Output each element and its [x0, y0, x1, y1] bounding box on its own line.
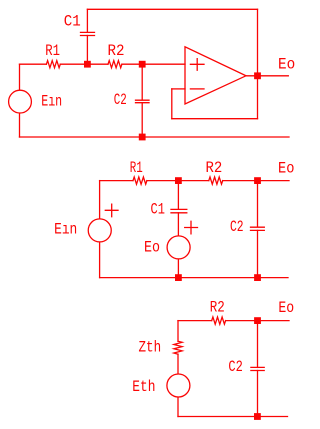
svg-text:R1: R1: [45, 42, 60, 60]
svg-text:C1: C1: [64, 12, 81, 30]
svg-text:C2: C2: [114, 91, 127, 109]
svg-text:R2: R2: [108, 42, 125, 60]
junction C2 branch to rail: [254, 274, 261, 281]
plus sign Eo polarity: [185, 221, 198, 234]
resistor R2: [212, 317, 226, 324]
resistor Zth vertical: [174, 341, 182, 354]
resistor R1: [133, 177, 147, 184]
wire left vertical to Zth: [177, 321, 179, 342]
wire Zth to Eth source: [177, 354, 179, 373]
svg-text:Eo: Eo: [278, 56, 295, 74]
wire C1 bottom lead: [86, 36, 88, 65]
wire op-amp output: [246, 75, 288, 77]
wire output vertical to top rail and feedback: [257, 9, 259, 118]
wire C1 to Eo source: [177, 213, 179, 236]
wire node A to R2: [87, 63, 108, 65]
junction C2 to ground rail: [139, 134, 146, 141]
wire Ein source top lead: [19, 64, 21, 89]
svg-text:Eo: Eo: [278, 159, 294, 177]
resistor R2: [108, 61, 122, 68]
svg-text:Eo: Eo: [278, 299, 294, 317]
wire C2 bottom lead: [257, 371, 259, 417]
source Eth: [167, 374, 190, 397]
wire Ein left vertical top: [99, 181, 101, 219]
svg-text:Eo: Eo: [144, 239, 160, 257]
capacitor C2: [136, 100, 150, 103]
wire node A to R2: [178, 180, 208, 182]
wire C2 bottom lead: [141, 103, 143, 137]
wire node B to op-amp plus input: [142, 63, 185, 65]
output node junction: [254, 317, 261, 324]
capacitor C1: [171, 209, 187, 212]
svg-text:R2: R2: [210, 298, 225, 316]
node A junction: [84, 61, 91, 68]
svg-text:Eın: Eın: [54, 220, 77, 238]
wire node to Eo: [258, 320, 290, 322]
output node junction: [254, 72, 261, 79]
plus sign Ein polarity: [105, 204, 118, 217]
op-amp plus sign: [190, 59, 204, 71]
svg-text:Eth: Eth: [132, 378, 155, 396]
svg-text:Eın: Eın: [41, 93, 62, 111]
source Ein: [88, 219, 111, 242]
svg-text:C1: C1: [151, 200, 165, 218]
wire feedback left vertical: [171, 89, 173, 119]
wire top left to R1: [100, 180, 133, 182]
op-amp U1: [185, 47, 246, 104]
wire Ein to R1: [20, 63, 47, 65]
svg-text:R1: R1: [130, 159, 143, 177]
node B junction: [139, 61, 146, 68]
wire R2 to node: [226, 320, 258, 322]
svg-text:R2: R2: [206, 159, 223, 177]
svg-text:C2: C2: [228, 358, 242, 376]
wire bottom ground rail: [178, 416, 288, 418]
wire Eo source bottom lead: [177, 260, 179, 278]
wire C2 top lead: [257, 321, 259, 368]
wire C1 top lead: [177, 181, 179, 209]
wire R1 to node A: [60, 63, 87, 65]
source Eo: [167, 236, 190, 259]
wire top left to R2: [178, 320, 212, 322]
wire R1 to node A: [147, 180, 179, 182]
wire node B to Eo: [258, 180, 290, 182]
op-amp minus sign: [190, 88, 204, 90]
wire R2 to node B: [122, 63, 142, 65]
wire bottom ground rail: [100, 277, 288, 279]
wire bottom ground rail: [20, 136, 290, 138]
resistor R1: [46, 61, 60, 68]
capacitor C2: [251, 367, 264, 370]
node A junction: [175, 177, 182, 184]
wire C1 top lead: [86, 9, 88, 32]
wire top feedback rail: [87, 8, 257, 10]
junction C2 branch to rail: [254, 413, 261, 420]
wire C2 bottom lead: [257, 230, 259, 277]
svg-text:Zth: Zth: [139, 338, 162, 356]
junction Eo branch to rail: [175, 274, 182, 281]
svg-text:C2: C2: [230, 218, 244, 236]
wire feedback bottom: [172, 118, 258, 120]
wire C2 top lead: [141, 64, 143, 100]
wire feedback to minus input: [172, 88, 185, 90]
wire Ein source bottom lead: [19, 114, 21, 137]
wire R2 to node B: [223, 180, 258, 182]
wire Eth bottom lead: [177, 398, 179, 417]
source Ein: [9, 90, 32, 113]
node B junction: [254, 177, 261, 184]
capacitor C1: [81, 32, 95, 35]
wire Ein left vertical bottom: [99, 243, 101, 278]
capacitor C2: [251, 227, 265, 230]
wire C2 top lead: [257, 181, 259, 227]
resistor R2: [209, 177, 223, 184]
